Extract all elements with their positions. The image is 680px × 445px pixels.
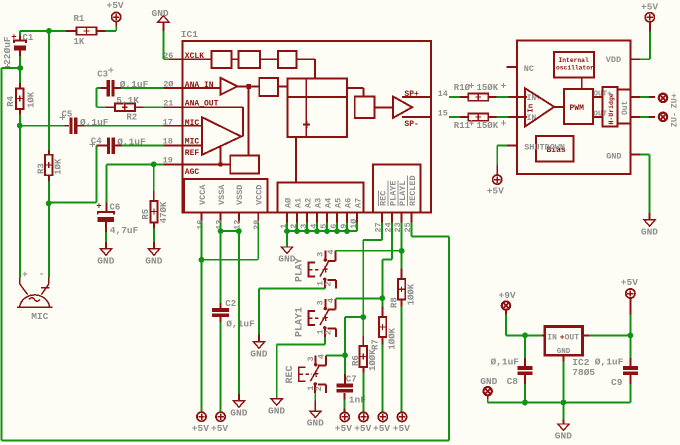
wire pin13 net	[220, 222, 222, 303]
svg-text:GND: GND	[97, 255, 114, 266]
IC1 pin 12	[233, 212, 243, 229]
wire address bus	[284, 222, 357, 234]
wire out to +5V	[629, 315, 631, 336]
svg-text:15: 15	[438, 109, 448, 119]
wire C4 to pin 18	[122, 145, 163, 147]
svg-text:3: 3	[316, 300, 326, 305]
amp OUT- wire	[593, 110, 612, 118]
svg-text:PLAYE: PLAYE	[388, 180, 398, 206]
wire array to address box	[295, 137, 297, 183]
node junction AGC/R5	[151, 161, 157, 167]
svg-text:+5V: +5V	[393, 423, 410, 434]
wire	[19, 115, 21, 126]
svg-text:SP-: SP-	[404, 120, 418, 129]
wire PLAY1 pin1 to GND	[277, 337, 325, 399]
wire	[153, 228, 155, 242]
svg-text:19: 19	[163, 156, 173, 166]
svg-text:Ø,1uF: Ø,1uF	[226, 318, 255, 329]
svg-text:GND: GND	[557, 348, 571, 356]
svg-text:In: In	[528, 103, 536, 113]
svg-text:C8: C8	[507, 376, 519, 387]
IC1 output block S5	[347, 88, 374, 118]
wire SP- net	[449, 116, 460, 118]
amp input pin IN-	[509, 114, 541, 123]
wire	[20, 31, 66, 36]
svg-text:REC: REC	[379, 191, 389, 206]
svg-text:OUT: OUT	[565, 334, 580, 343]
IC1 pin 16	[195, 212, 205, 229]
svg-text:C2: C2	[225, 299, 236, 309]
supply +5V (shutdown)	[487, 165, 504, 196]
wire	[105, 232, 107, 242]
svg-text:+5V: +5V	[621, 277, 638, 288]
svg-text:+: +	[22, 270, 27, 280]
IC1 pin 13	[214, 212, 224, 229]
IC1 pin 23	[393, 212, 403, 232]
svg-text:IN-: IN-	[527, 114, 541, 123]
svg-text:5,1K: 5,1K	[116, 95, 139, 106]
wire R7 to +5V	[382, 345, 384, 413]
amp OUT+ wire	[593, 91, 612, 99]
IC1 clock block 2	[232, 51, 260, 68]
wire R3 to C4 net	[49, 146, 97, 203]
wire +9V to IC2	[506, 315, 542, 336]
svg-text:+5V: +5V	[107, 0, 124, 11]
amp pin SHUTDOWN	[507, 142, 565, 152]
terminal pad ZU+	[659, 93, 680, 108]
svg-text:AØ: AØ	[283, 198, 293, 208]
svg-text:C3: C3	[97, 70, 108, 80]
terminal pad +9V	[499, 290, 516, 315]
svg-text:A6: A6	[343, 198, 353, 208]
IC1 block S4	[251, 78, 288, 96]
svg-text:SP+: SP+	[404, 90, 419, 99]
svg-text:Ø,1uF: Ø,1uF	[491, 357, 520, 368]
capacitor C6	[96, 201, 138, 236]
svg-text:NC: NC	[524, 64, 534, 74]
svg-text:15ØK: 15ØK	[477, 83, 499, 93]
wire C3 left bracket	[96, 88, 105, 107]
node junction 12	[236, 228, 242, 234]
resistor R6	[351, 317, 378, 372]
svg-text:3: 3	[316, 252, 326, 257]
svg-text:R8: R8	[390, 297, 400, 308]
terminal pad GND	[480, 376, 497, 399]
wire clock to array	[296, 59, 315, 78]
node junction C8/rail	[522, 400, 528, 406]
svg-text:GND: GND	[641, 226, 658, 237]
svg-text:A4: A4	[323, 198, 333, 208]
supply +5V (R8)	[393, 412, 410, 434]
wire amp GND	[640, 155, 650, 214]
svg-text:12: 12	[233, 220, 243, 230]
node junction REC/C7	[342, 352, 348, 358]
svg-text:GND: GND	[268, 405, 285, 416]
svg-text:GND: GND	[152, 8, 169, 19]
IC1 pin 19 AGC	[163, 156, 200, 178]
wire IC2 out	[583, 334, 631, 336]
ground GND (PLAY)	[250, 335, 267, 360]
svg-text:REF: REF	[185, 149, 200, 158]
IC1 control box REC PLAYE PLAYL RECLED	[373, 164, 421, 212]
svg-text:C6: C6	[110, 203, 121, 213]
wire C9 down	[629, 384, 631, 403]
resistor R11	[454, 113, 506, 131]
wire ground rail 7805	[488, 399, 631, 403]
svg-text:78Ø5: 78Ø5	[572, 367, 595, 378]
IC1 input amp	[183, 78, 247, 95]
IC1 pin 28	[252, 212, 262, 229]
resistor R3	[37, 150, 64, 181]
supply +5V (VCCA)	[192, 412, 209, 434]
node junction 16/28	[199, 257, 205, 263]
IC amplifier body	[517, 41, 630, 175]
node junction R3/C4/MIC-	[46, 200, 52, 206]
supply +5V (top left)	[107, 0, 124, 26]
svg-text:-: -	[39, 269, 45, 280]
IC1 pin 25	[403, 212, 413, 232]
IC ISD IC1 body	[181, 29, 431, 212]
svg-text:1ØØK: 1ØØK	[406, 283, 416, 305]
supply +5V (7805 out)	[621, 277, 638, 315]
switch PLAY	[295, 249, 337, 288]
wire pin25 loop	[411, 222, 449, 440]
svg-text:+: +	[96, 201, 101, 211]
svg-text:VSSD: VSSD	[235, 185, 245, 205]
svg-text:PLAY: PLAY	[295, 258, 306, 282]
ground GND (XCLK)	[152, 8, 170, 31]
svg-text:1ØØK: 1ØØK	[368, 349, 378, 371]
IC1 pin 14 SP+	[402, 89, 448, 99]
resistor R1	[66, 14, 105, 47]
svg-text:R7: R7	[371, 339, 381, 350]
supply +5V (C7)	[335, 409, 352, 435]
wire VDD to +5V	[640, 31, 650, 59]
IC1 pin 15 SP-	[402, 109, 448, 130]
wire PLAY1 pin4 to R7 node	[335, 297, 382, 299]
svg-text:2: 2	[314, 386, 324, 391]
wire left rail	[1, 68, 3, 441]
wire C8 down	[524, 384, 526, 403]
capacitor C9	[595, 335, 638, 388]
wire R2 to pin 21	[143, 106, 163, 108]
svg-text:A1: A1	[293, 198, 303, 208]
wire	[153, 164, 155, 191]
svg-text:H-bridge: H-bridge	[608, 93, 615, 124]
wire 13 to 12	[221, 230, 239, 232]
wire pin16 VCCA net	[201, 222, 203, 412]
capacitor C2	[212, 299, 255, 329]
ground GND (amp)	[641, 213, 658, 237]
node junction OUT/C9	[628, 333, 634, 339]
wire	[48, 181, 50, 203]
wire OUT- to terminal	[631, 116, 655, 118]
svg-text:+5V: +5V	[354, 423, 371, 434]
svg-text:IN+: IN+	[527, 94, 542, 103]
svg-text:4: 4	[326, 298, 336, 303]
svg-text:4: 4	[326, 249, 336, 254]
svg-text:R1Ø: R1Ø	[454, 83, 471, 93]
svg-text:Internal: Internal	[559, 57, 589, 64]
wire SP+ net	[449, 96, 460, 98]
svg-text:R11: R11	[454, 121, 471, 131]
svg-text:REC: REC	[285, 365, 296, 383]
amp opamp triangle	[525, 88, 564, 126]
svg-text:15ØK: 15ØK	[477, 121, 499, 131]
svg-text:C7: C7	[346, 375, 357, 385]
capacitor C3	[97, 67, 148, 96]
IC1 clock block 1	[183, 51, 232, 68]
svg-text:C9: C9	[611, 377, 623, 388]
wire ANA_OUT to mic amp out	[183, 107, 244, 136]
wire shutdown to +5V	[497, 146, 507, 166]
wire to left rail	[2, 67, 21, 69]
node junction C1/R4/rail	[17, 65, 23, 71]
svg-text:R1: R1	[74, 14, 85, 24]
wire A0 to GND	[286, 231, 288, 247]
IC1 address box A0-A7	[278, 183, 364, 213]
svg-text:1ØK: 1ØK	[27, 91, 37, 108]
ground GND (REC)	[307, 400, 324, 428]
svg-text:13: 13	[214, 220, 224, 230]
svg-text:GND: GND	[480, 376, 497, 387]
node junction PLAYL	[399, 248, 405, 254]
amp input pin IN+	[509, 94, 542, 103]
wire	[105, 27, 116, 32]
svg-text:+5V: +5V	[192, 423, 209, 434]
wire OUT+ to terminal	[631, 96, 655, 98]
ground GND (7805)	[555, 420, 572, 442]
wire R3 top	[48, 31, 50, 150]
IC1 pin 17 MIC	[163, 118, 200, 128]
svg-text:+5V: +5V	[335, 423, 352, 434]
amp Bias block	[536, 136, 573, 161]
svg-text:PLAY1: PLAY1	[295, 307, 306, 337]
node junction R4/C5/MIC+	[17, 123, 23, 129]
svg-text:R6: R6	[351, 355, 361, 366]
microphone MIC	[17, 269, 53, 322]
svg-text:+9V: +9V	[499, 290, 516, 301]
amp Out block	[618, 89, 631, 123]
wire C2 down	[219, 322, 221, 412]
svg-text:GND: GND	[250, 348, 267, 359]
node junction C8/IN	[522, 333, 528, 339]
svg-text:GND: GND	[307, 418, 324, 429]
supply +5V (C2)	[211, 412, 228, 434]
node junction GND/rail	[561, 400, 567, 406]
svg-text:oscillator: oscillator	[556, 64, 594, 71]
svg-text:16: 16	[195, 220, 205, 230]
svg-text:A2: A2	[303, 198, 313, 208]
ground GND (A0)	[278, 247, 295, 265]
resistor R7	[371, 298, 398, 350]
amp PWM block	[564, 89, 593, 124]
ground GND (C6)	[97, 242, 114, 267]
switch PLAY1	[295, 298, 337, 337]
amp internal oscillator block	[554, 52, 594, 89]
wire bottom rail	[2, 440, 450, 442]
wire MIC- vertical	[48, 203, 50, 277]
svg-text:GND: GND	[606, 152, 621, 162]
IC1 pin 18 MIC REF	[163, 136, 200, 158]
svg-text:1K: 1K	[74, 37, 85, 47]
capacitor C1	[2, 33, 34, 69]
node junction 13/12	[218, 228, 224, 234]
svg-text:A7: A7	[353, 198, 363, 208]
svg-text:GND: GND	[278, 254, 295, 265]
svg-text:3: 3	[306, 356, 316, 361]
supply +5V (VDD)	[641, 1, 658, 31]
wire	[19, 56, 21, 68]
svg-text:VSSA: VSSA	[217, 184, 227, 205]
IC1 pin 20 ANA_IN	[163, 79, 214, 90]
svg-text:GND: GND	[145, 255, 162, 266]
svg-text:+5V: +5V	[641, 1, 658, 12]
node junction R7/PLAYE	[379, 295, 385, 301]
wire pin12 down	[238, 231, 240, 394]
svg-text:A3: A3	[313, 198, 323, 208]
wire R6 to +5V	[362, 373, 364, 413]
wire C7 to +5V	[344, 400, 346, 409]
ground GND (VSSD)	[230, 394, 247, 418]
wire R8 to +5V	[401, 306, 403, 413]
IC1 speaker amp	[374, 96, 412, 118]
supply +5V (R6)	[354, 412, 371, 434]
capacitor C5	[60, 109, 109, 134]
svg-text:4,7uF: 4,7uF	[110, 225, 139, 236]
IC2 7805 regulator	[542, 326, 596, 378]
wire REC pin1 to GND	[314, 393, 316, 400]
svg-text:+5V: +5V	[211, 423, 228, 434]
node junction AGC internal	[218, 162, 223, 167]
amp pin VDD	[606, 55, 640, 65]
IC1 pin 24	[383, 212, 393, 232]
amp pin GND	[606, 152, 640, 162]
node junction REC/R6	[360, 314, 366, 320]
svg-text:SHUTDOWN: SHUTDOWN	[524, 142, 565, 152]
wire REC pin4 to junction	[326, 354, 345, 356]
svg-text:C1: C1	[23, 33, 34, 43]
svg-text:28: 28	[252, 220, 262, 230]
wire pin24 jog	[382, 222, 392, 298]
wire PLAY pin1 to GND	[259, 288, 325, 334]
terminal pad ZU-	[659, 112, 680, 127]
IC1 address pins 1-10	[279, 212, 359, 228]
IC1 memory array block	[288, 78, 348, 137]
svg-text:2: 2	[324, 330, 334, 335]
wire REC junction up	[345, 317, 363, 355]
capacitor C7	[336, 355, 366, 405]
svg-text:PLAYL: PLAYL	[398, 180, 408, 206]
wire C5 to pin 17	[84, 125, 163, 127]
svg-text:R2: R2	[126, 113, 137, 123]
wire C3 to pin 20	[121, 87, 163, 89]
svg-text:VCCD: VCCD	[255, 185, 265, 205]
node junction R1/C1	[46, 28, 52, 34]
svg-text:R5: R5	[141, 209, 151, 220]
svg-text:AGC: AGC	[185, 168, 200, 177]
svg-text:VCCA: VCCA	[198, 184, 208, 205]
svg-text:22ØuF: 22ØuF	[2, 36, 13, 65]
svg-text:R3: R3	[37, 163, 47, 174]
resistor R8	[390, 269, 417, 308]
svg-text:2Ø: 2Ø	[163, 79, 173, 89]
node junction ANA_IN/AGC	[246, 84, 251, 89]
svg-text:14: 14	[438, 89, 448, 99]
resistor R4	[6, 68, 36, 115]
resistor R2	[105, 95, 143, 123]
svg-text:RECLED: RECLED	[408, 175, 418, 206]
IC1 mic amp	[183, 117, 242, 164]
svg-text:18: 18	[163, 136, 173, 146]
svg-text:+5V: +5V	[487, 185, 504, 196]
IC1 AGC block	[183, 89, 260, 174]
wire MIC+ vertical	[19, 126, 21, 278]
svg-text:R4: R4	[6, 95, 16, 106]
svg-text:2: 2	[324, 281, 334, 286]
switch REC	[285, 354, 326, 393]
supply +5V (R7)	[373, 412, 390, 434]
svg-text:IC1: IC1	[181, 29, 198, 40]
svg-text:MIC: MIC	[31, 311, 48, 322]
svg-text:1ØØK: 1ØØK	[387, 327, 397, 349]
IC1 power pin box VCCA VSSA VSSD VCCD	[184, 179, 268, 212]
wire pin27 to R6 node	[363, 222, 382, 317]
resistor R5	[141, 191, 169, 228]
wire	[496, 96, 508, 98]
svg-text:Out: Out	[621, 100, 630, 115]
svg-text:21: 21	[163, 98, 173, 108]
svg-text:GND: GND	[555, 431, 572, 442]
svg-text:4: 4	[316, 354, 326, 359]
IC1 pin 27	[374, 212, 384, 232]
svg-text:ZU-: ZU-	[669, 112, 679, 127]
svg-text:PWM: PWM	[570, 104, 585, 113]
svg-text:GND: GND	[230, 407, 247, 418]
IC1 pin 26 XCLK	[163, 51, 204, 61]
svg-text:+5V: +5V	[373, 423, 390, 434]
wire pin23 to R8	[401, 222, 403, 268]
wire pin28 to pin16	[202, 222, 259, 259]
svg-text:A5: A5	[333, 198, 343, 208]
svg-text:VDD: VDD	[606, 55, 621, 65]
wire PLAY pin4 to PLAYL	[335, 250, 401, 252]
wire AGC net	[106, 164, 163, 202]
amp H-bridge block	[603, 87, 618, 127]
ground GND (PLAY1)	[268, 399, 285, 417]
capacitor C8	[491, 335, 533, 387]
svg-text:47ØK: 47ØK	[159, 201, 169, 223]
IC1 pin 21 ANA_OUT	[163, 98, 218, 108]
svg-text:ZU+: ZU+	[669, 93, 679, 108]
wire XCLK to GND	[163, 31, 169, 59]
wire rail to GND symbol	[563, 403, 565, 420]
amp pin NC	[506, 64, 534, 74]
capacitor C4	[90, 136, 146, 153]
resistor R10	[454, 83, 506, 101]
svg-text:Ø,1uF: Ø,1uF	[595, 357, 624, 368]
svg-text:IN: IN	[547, 334, 557, 343]
wire	[496, 116, 508, 118]
ground GND (R5)	[145, 242, 162, 267]
wire IC2 GND pin	[563, 355, 565, 402]
IC1 clock block 3	[260, 51, 296, 68]
wire C5 left	[20, 125, 65, 127]
svg-text:17: 17	[163, 118, 173, 128]
svg-text:1ØK: 1ØK	[54, 158, 64, 175]
